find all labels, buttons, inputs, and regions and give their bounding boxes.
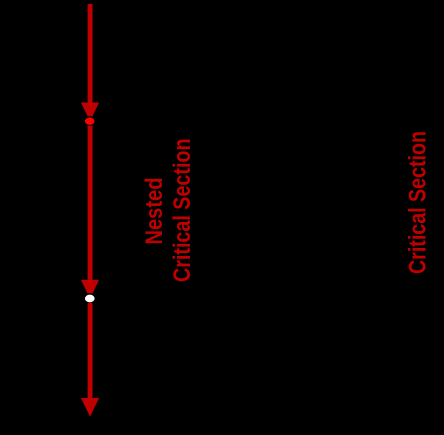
wire: timeline segment 2 [88, 126, 93, 280]
node: white dot (nested lock release) [84, 294, 95, 303]
wire: timeline segment 1 [88, 4, 93, 103]
arrowhead 3 [81, 398, 99, 417]
svg-text:Critical Section: Critical Section [169, 139, 196, 283]
node: red dot (nested lock acquire) [84, 117, 95, 126]
svg-text:Critical Section: Critical Section [404, 131, 431, 274]
wire: timeline segment 3 [88, 303, 93, 398]
svg-text:Nested: Nested [141, 178, 168, 245]
arrowhead 2 [81, 280, 99, 299]
arrowhead 1 [81, 103, 99, 122]
